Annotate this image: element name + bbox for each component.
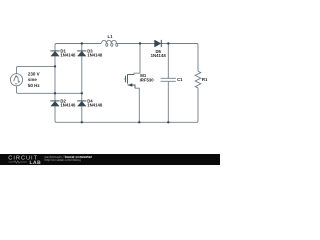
- svg-text:1N4148: 1N4148: [60, 103, 76, 108]
- svg-text:1N4148: 1N4148: [60, 53, 76, 58]
- svg-text:L1: L1: [107, 34, 113, 39]
- svg-text:1N4148: 1N4148: [87, 53, 103, 58]
- svg-text:230 V: 230 V: [28, 71, 40, 76]
- svg-text:sine: sine: [28, 77, 38, 82]
- svg-text:http://circuitlab.com/c66kwj: http://circuitlab.com/c66kwj: [45, 158, 81, 162]
- svg-text:IRF530: IRF530: [140, 77, 155, 82]
- svg-text:1N4148: 1N4148: [151, 53, 167, 58]
- svg-text:1N4148: 1N4148: [87, 103, 103, 108]
- svg-text:50 Hz: 50 Hz: [28, 83, 41, 88]
- svg-text:R1: R1: [202, 77, 208, 82]
- svg-text:LAB: LAB: [30, 160, 42, 165]
- svg-text:C1: C1: [177, 77, 183, 82]
